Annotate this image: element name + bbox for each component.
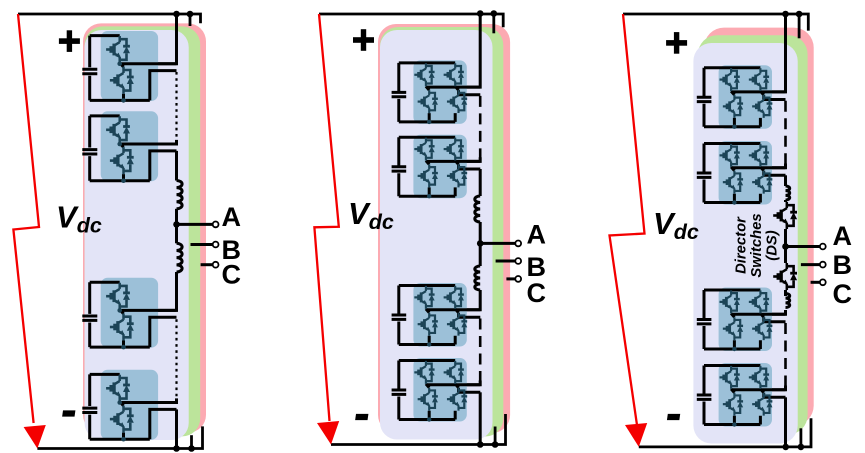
svg-text:(DS): (DS) [764, 230, 780, 260]
Director Switches text label [733, 213, 780, 277]
wire: output A (converter 3) [786, 245, 821, 248]
converter 1: phase-leg stack layers (phase A) [85, 30, 189, 440]
submodule SM3 (converter 1, half-bridge) [82, 278, 176, 350]
svg-text:Switches: Switches [749, 213, 765, 277]
wire: dashed continuation SM3-SM4 (converter 2) [479, 319, 482, 383]
arrowhead (converter 3) [625, 423, 647, 447]
svg-text:A: A [527, 219, 547, 249]
wire [784, 290, 787, 296]
terminal B (converter 2) [515, 258, 521, 264]
svg-text:A: A [833, 221, 853, 251]
wire: to SM3 (converter 3) [731, 310, 785, 314]
submodule SM2 (converter 2, full-bridge) [392, 135, 481, 199]
wire: output C (converter 2) [506, 277, 515, 280]
phase output node junction (converter 3) [782, 243, 789, 250]
converter 1: phase-leg stack layers (phase B) [85, 26, 201, 436]
junction [187, 11, 194, 18]
junction [492, 441, 499, 448]
junction [798, 444, 805, 451]
wire: dashed continuation SM1-SM2 (converter 2) [479, 96, 482, 159]
submodule SM2 (converter 3, full-bridge) [697, 141, 786, 205]
wire [784, 200, 787, 202]
wire: output B (converter 3) [801, 263, 820, 266]
wire: dotted continuation SM3-SM4 [175, 319, 177, 400]
director switch lower (converter 3) [773, 263, 797, 290]
DC bus positive rail (converter 3) [623, 14, 808, 31]
wire: SM2 mid connection (converter 3) [731, 164, 785, 168]
wire: SM2 to arm inductor (converter 3) [784, 175, 787, 186]
terminal A (converter 2) [515, 241, 521, 247]
wire: dotted continuation SM1-SM2 [175, 72, 177, 142]
submodule SM2 (converter 1, half-bridge) [82, 111, 176, 183]
terminal A [213, 222, 219, 228]
submodule SM1 (converter 2, full-bridge) [392, 60, 481, 124]
arrowhead [24, 425, 46, 449]
inductor: lower arm (converter 2) [475, 266, 480, 290]
DC bus positive rail (converter 1) [18, 14, 201, 23]
converter 3: stack layer phase B [698, 35, 808, 434]
submodule SM1 (converter 1, half-bridge) [82, 31, 176, 103]
Vdc source arrow (converter 3) [610, 14, 645, 425]
terminal C (converter 2) [515, 276, 521, 282]
Vdc source arrow (converter 2) [314, 14, 338, 421]
converter 2: stack layer phase B [380, 27, 503, 437]
DC bus negative rail (converter 1) [37, 426, 202, 448]
terminal B [213, 242, 219, 248]
wire: SM2 mid connection [120, 140, 177, 144]
stub (converter 1 bottom) [190, 435, 193, 448]
Vdc source arrow (converter 1) [13, 14, 39, 423]
junction [491, 10, 498, 17]
stub of phase leg B (converter 2) [492, 14, 495, 33]
terminal A (converter 3) [820, 244, 826, 250]
wire: output A [177, 223, 213, 226]
wire: SM4 mid connection (converter 2) [426, 381, 480, 385]
stub of phase leg B (converter 3) [798, 14, 801, 38]
inductor: upper arm (converter 2) [475, 196, 480, 222]
plus terminal label (converter 3) [666, 40, 687, 46]
submodule SM4 (converter 3, full-bridge) [697, 363, 786, 427]
converter 3: stack layer phase A [693, 43, 797, 444]
wire: output C [201, 263, 213, 266]
junction [477, 10, 484, 17]
svg-text:A: A [222, 202, 242, 232]
converter 3: stack layer phase C [704, 28, 814, 426]
terminal B (converter 3) [820, 262, 826, 268]
wire: dashed continuation SM1-SM2 (converter 3) [784, 101, 787, 166]
submodule SM3 (converter 3, full-bridge) [697, 288, 786, 352]
wire: SM2 mid connection (converter 2) [426, 157, 480, 161]
converter 1: phase-leg stack layers (phase C) [83, 23, 206, 432]
submodule SM3 (converter 2, full-bridge) [392, 283, 481, 347]
wire: inductor to SM3 [120, 272, 177, 310]
svg-text:C: C [222, 260, 242, 290]
DC bus negative rail (converter 2) [331, 414, 506, 445]
minus terminal label (converter 2) [355, 414, 368, 420]
junction [173, 445, 180, 452]
wire: upper arm feed (converter 2) [426, 14, 480, 87]
wire: inductor to phase node [175, 209, 178, 244]
submodule SM4 (converter 1, half-bridge) [82, 370, 176, 442]
svg-text:Director: Director [733, 216, 749, 274]
wire: output A (converter 2) [480, 242, 515, 245]
junction [173, 11, 180, 18]
converter 2: stack layer phase C [378, 24, 510, 433]
wire: SM4 to negative rail (converter 2) [479, 392, 482, 444]
wire: SM4 mid connection [120, 398, 177, 402]
wire: SM4 to negative rail (converter 3) [784, 397, 787, 447]
wire: dashed continuation SM3-SM4 (converter 3) [784, 323, 787, 388]
stub (converter 2 bottom) [494, 427, 497, 445]
wire: output B (converter 2) [496, 260, 516, 263]
junction [477, 441, 484, 448]
wire: output B [191, 243, 213, 246]
wire: to phase node (converter 2) [479, 222, 482, 266]
DC bus negative rail (converter 3) [639, 418, 811, 447]
wire: inductor to SM3 (converter 2) [426, 290, 480, 310]
svg-text:B: B [833, 250, 853, 280]
submodule SM4 (converter 2, full-bridge) [392, 358, 481, 422]
svg-text:C: C [833, 279, 853, 309]
svg-text:Vdc: Vdc [653, 206, 699, 244]
plus terminal label (converter 2) [353, 37, 374, 43]
minus terminal label (converter 1) [62, 410, 75, 416]
arrowhead (converter 2) [317, 421, 339, 445]
junction [782, 11, 789, 18]
terminal C (converter 3) [820, 279, 826, 285]
wire: output C (converter 3) [811, 281, 820, 284]
minus terminal label (converter 3) [667, 414, 680, 420]
phase output node junction [173, 221, 180, 228]
stub of phase leg B (converter 1) [189, 14, 192, 26]
DC bus positive rail (converter 2) [319, 14, 503, 27]
junction [188, 445, 195, 452]
phase output node junction (converter 2) [477, 240, 484, 247]
wire: SM2 to arm inductor (converter 2) [479, 169, 482, 196]
inductor: upper arm small (converter 3) [786, 186, 790, 200]
inductor: lower arm (converter 1) [177, 243, 183, 272]
wire: SM4 mid connection (converter 3) [731, 386, 785, 390]
plus terminal label (converter 1) [59, 38, 80, 44]
terminal C [213, 262, 219, 268]
inductor: lower arm small (converter 3) [786, 294, 790, 308]
director switch upper (converter 3) [773, 202, 797, 229]
wire [784, 229, 787, 263]
wire: upper arm feed [120, 14, 177, 64]
junction [782, 444, 789, 451]
wire: upper arm feed (converter 3) [731, 14, 785, 92]
svg-text:C: C [527, 278, 547, 308]
stub (converter 3 bottom) [800, 428, 803, 447]
converter 2: stack layer phase A [380, 30, 493, 440]
submodule SM1 (converter 3, full-bridge) [697, 65, 786, 129]
wire: SM2 to arm inductor [175, 151, 178, 181]
wire: SM4 to negative rail [175, 409, 178, 448]
inductor: upper arm (converter 1) [177, 181, 183, 209]
junction [796, 11, 803, 18]
